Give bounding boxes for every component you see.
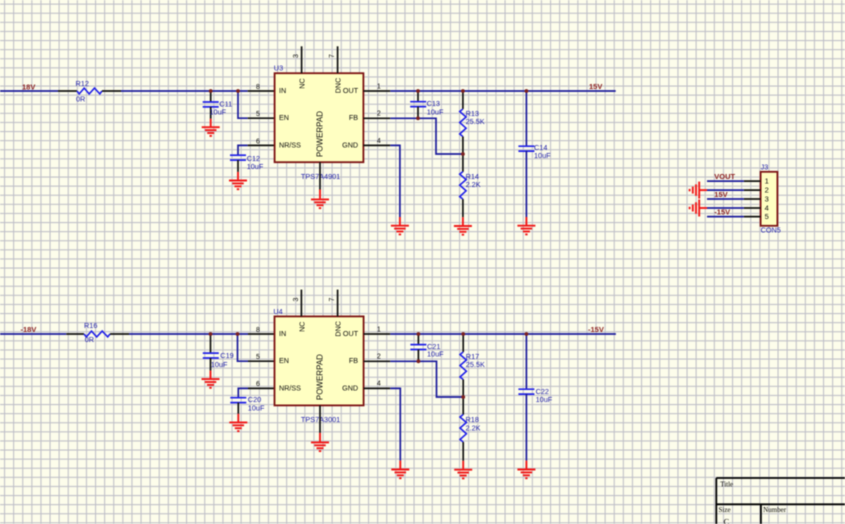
ground below C12	[229, 172, 247, 189]
svg-text:2: 2	[377, 354, 381, 361]
svg-text:1: 1	[377, 83, 381, 90]
svg-text:7: 7	[329, 297, 336, 301]
svg-text:CON5: CON5	[761, 226, 781, 235]
pin name DNC	[333, 78, 342, 94]
svg-text:IN: IN	[279, 329, 286, 338]
svg-text:GND: GND	[342, 140, 358, 149]
svg-text:R16: R16	[84, 321, 97, 330]
pin 1 OUT of U4	[364, 326, 391, 334]
pin 4 GND of U4	[364, 381, 391, 389]
svg-text:U4: U4	[273, 307, 282, 316]
svg-text:25.5K: 25.5K	[466, 360, 485, 369]
wire 15V to pin 3	[707, 198, 744, 200]
capacitor C22	[518, 387, 552, 404]
ground below C14	[517, 217, 535, 234]
svg-text:Title: Title	[720, 480, 733, 488]
resistor R13	[460, 91, 485, 154]
wire C14 to ground	[525, 151, 527, 217]
pin name OUT U4	[343, 329, 359, 338]
pin 5 EN of U4	[248, 354, 275, 361]
pin 2 FB of U4	[364, 354, 391, 362]
ground below R14	[454, 217, 472, 235]
svg-text:25.5K: 25.5K	[466, 117, 485, 126]
junction OUT at C21	[417, 332, 421, 336]
svg-text:C: C	[724, 516, 730, 524]
svg-text:6: 6	[256, 138, 260, 145]
pin name GND U4	[342, 383, 358, 392]
ground below C22	[517, 461, 535, 479]
wire GND pin to ground	[390, 145, 400, 217]
capacitor C20	[230, 395, 265, 414]
pin 8 IN of U4	[248, 327, 275, 334]
net label 18V	[22, 82, 35, 91]
net label 15V	[589, 82, 602, 91]
svg-text:10uF: 10uF	[534, 151, 551, 160]
resistor R12	[58, 79, 121, 104]
designator U4	[273, 307, 282, 316]
designator U3	[274, 64, 283, 73]
junction at EN tap	[236, 89, 240, 93]
svg-text:6: 6	[256, 381, 260, 388]
svg-text:1: 1	[377, 326, 381, 333]
pin 3 NC of U4	[293, 290, 302, 317]
svg-text:3: 3	[293, 297, 300, 301]
svg-text:10uF: 10uF	[247, 162, 264, 171]
pin name POWERPAD U4	[315, 354, 324, 400]
svg-text:U3: U3	[274, 64, 283, 73]
net label -15V at J3	[714, 208, 730, 217]
wire -15V to pin 5	[707, 216, 744, 218]
capacitor C13	[410, 91, 444, 118]
svg-text:7: 7	[329, 54, 336, 58]
wire R16 to U4 IN	[129, 333, 248, 335]
svg-text:10uF: 10uF	[427, 107, 444, 116]
wire GND pin to ground U4	[390, 388, 400, 460]
svg-text:C19: C19	[220, 351, 233, 360]
svg-text:NC: NC	[297, 78, 306, 88]
junction FB at C13	[416, 116, 420, 120]
wire 18V input rail	[0, 90, 58, 92]
svg-text:0R: 0R	[85, 335, 94, 344]
pin name IN U4	[279, 329, 286, 338]
pin name EN U4	[279, 356, 289, 365]
wire FB to divider	[390, 118, 463, 154]
svg-text:3: 3	[293, 54, 300, 58]
pin 7 DNC of U4	[329, 290, 338, 317]
capacitor C11	[203, 91, 233, 119]
wire NR/SS to C12	[238, 145, 248, 155]
svg-text:NR/SS: NR/SS	[279, 140, 301, 149]
pin 1 of J3	[744, 177, 769, 186]
svg-text:8: 8	[256, 84, 260, 91]
pin 4 GND of U3	[363, 138, 390, 146]
wire EN tap U4	[238, 334, 249, 361]
op-amp U3 body	[275, 73, 364, 162]
part value TPS7A4901	[301, 172, 340, 181]
ground below GND pin	[391, 217, 409, 234]
svg-text:10uF: 10uF	[210, 107, 227, 116]
svg-text:DNC: DNC	[333, 321, 342, 337]
svg-text:4: 4	[377, 138, 381, 145]
wire R12 to U3 IN	[121, 90, 248, 92]
title block label Size	[719, 506, 731, 514]
wire EN tap	[238, 91, 248, 118]
pin name FB	[349, 113, 358, 122]
junction at EN tap U4	[236, 332, 240, 336]
svg-text:GND: GND	[342, 383, 358, 392]
connector J3 body	[761, 172, 778, 226]
part value TPS7A3001	[301, 415, 340, 424]
op-amp U4 body	[275, 316, 364, 405]
junction OUT at C13	[416, 89, 420, 93]
svg-text:R12: R12	[76, 79, 89, 88]
junction R13 R14 node	[461, 152, 465, 156]
svg-text:J3: J3	[761, 162, 769, 171]
svg-text:NC: NC	[297, 322, 306, 332]
wire ground to pin 2	[707, 189, 744, 191]
junction R17 R18 node	[461, 395, 465, 399]
pin 9 POWERPAD of U4	[319, 405, 321, 433]
pin 4 of J3	[744, 203, 769, 212]
pin 6 NR/SS of U4	[248, 381, 275, 388]
svg-text:POWERPAD: POWERPAD	[315, 111, 324, 157]
net label 15V at J3	[714, 190, 727, 199]
svg-text:10uF: 10uF	[427, 350, 444, 359]
svg-text:Number: Number	[763, 506, 787, 514]
pin name EN	[279, 113, 289, 122]
svg-text:10uF: 10uF	[536, 395, 553, 404]
capacitor C21	[410, 334, 444, 361]
resistor R18	[460, 397, 481, 461]
svg-text:2: 2	[377, 111, 381, 118]
ground at pin 2	[690, 182, 707, 199]
svg-text:POWERPAD: POWERPAD	[315, 354, 324, 400]
wire OUT rail 15V	[390, 90, 615, 92]
svg-text:DNC: DNC	[333, 78, 342, 94]
title block size C	[724, 516, 730, 524]
title block label Title	[720, 480, 733, 488]
ground below U4	[311, 433, 329, 451]
capacitor C19	[203, 334, 234, 371]
wire FB to divider U4	[390, 361, 463, 397]
junction OUT at R17	[461, 332, 465, 336]
svg-text:FB: FB	[349, 113, 358, 122]
svg-text:3: 3	[765, 194, 769, 203]
capacitor C14	[518, 143, 551, 160]
pin name NC	[297, 78, 306, 88]
wire NR/SS to C20	[238, 388, 248, 397]
junction OUT at C22	[525, 332, 529, 336]
junction at C11	[209, 89, 213, 93]
ground at pin 4	[690, 200, 707, 217]
ground below C19	[202, 371, 220, 388]
pin 2 FB of U3	[363, 111, 390, 119]
ground below GND pin U4	[391, 461, 409, 479]
resistor R14	[460, 154, 481, 217]
pin 6 NR/SS of U3	[248, 138, 275, 145]
pin name FB U4	[349, 356, 358, 365]
svg-text:FB: FB	[349, 356, 358, 365]
svg-text:1: 1	[765, 177, 769, 186]
svg-text:OUT: OUT	[343, 86, 359, 95]
net label -15V	[588, 325, 604, 334]
capacitor C12	[230, 154, 264, 172]
svg-text:5: 5	[256, 111, 260, 118]
svg-text:-18V: -18V	[21, 325, 37, 334]
svg-text:OUT: OUT	[343, 329, 359, 338]
junction FB at C21	[417, 359, 421, 363]
wire C22 to ground	[525, 394, 527, 461]
svg-text:-15V: -15V	[714, 208, 730, 217]
ground below C20	[229, 414, 247, 431]
ground below U3	[311, 190, 329, 209]
pin name NR/SS U4	[279, 383, 301, 392]
wire VOUT to pin 1	[707, 180, 744, 182]
svg-text:Size: Size	[719, 506, 731, 514]
svg-text:18V: 18V	[22, 82, 35, 91]
junction OUT at R13	[461, 89, 465, 93]
wire OUT to C14	[525, 91, 527, 146]
svg-text:5: 5	[765, 212, 769, 221]
pin 2 of J3	[744, 186, 769, 195]
pin 8 IN of U3	[248, 84, 275, 91]
svg-text:10uF: 10uF	[211, 360, 228, 369]
wire -18V input rail	[0, 333, 66, 335]
net label -18V	[21, 325, 37, 334]
pin name POWERPAD	[315, 111, 324, 157]
designator J3	[761, 162, 769, 171]
pin name IN	[279, 86, 286, 95]
ground below C11	[202, 119, 220, 136]
pin 5 of J3	[744, 212, 769, 221]
svg-text:2.2K: 2.2K	[466, 424, 481, 433]
pin 9 POWERPAD of U3	[319, 162, 321, 189]
svg-text:NR/SS: NR/SS	[279, 383, 301, 392]
wire OUT to C22	[525, 334, 527, 389]
svg-text:15V: 15V	[714, 190, 727, 199]
svg-text:IN: IN	[279, 86, 286, 95]
svg-text:2: 2	[765, 186, 769, 195]
pin name OUT	[343, 86, 359, 95]
pin 7 DNC of U3	[329, 46, 338, 73]
pin name GND	[342, 140, 358, 149]
svg-text:5: 5	[256, 354, 260, 361]
title block label Number	[763, 506, 787, 514]
svg-text:4: 4	[377, 381, 381, 388]
pin 3 of J3	[744, 194, 769, 203]
svg-text:10uF: 10uF	[248, 404, 265, 413]
part value CON5	[761, 226, 781, 235]
svg-text:0R: 0R	[76, 94, 85, 103]
junction OUT at C14	[525, 89, 529, 93]
junction at C19	[209, 332, 213, 336]
net label VOUT	[714, 172, 735, 181]
wire ground to pin 4	[707, 207, 744, 209]
svg-text:2.2K: 2.2K	[466, 180, 481, 189]
resistor R16	[66, 321, 129, 344]
resistor R17	[460, 334, 485, 397]
svg-text:8: 8	[256, 327, 260, 334]
ground below R18	[454, 461, 472, 479]
svg-text:EN: EN	[279, 113, 289, 122]
pin name NC U4	[297, 322, 306, 332]
pin 3 NC of U3	[293, 46, 302, 73]
wire OUT rail -15V	[390, 333, 616, 335]
svg-text:15V: 15V	[589, 82, 602, 91]
svg-text:EN: EN	[279, 356, 289, 365]
title block frame	[716, 478, 845, 524]
pin 5 EN of U3	[248, 111, 275, 118]
svg-text:VOUT: VOUT	[714, 172, 735, 181]
pin name DNC U4	[333, 321, 342, 337]
pin name NR/SS	[279, 140, 301, 149]
pin 1 OUT of U3	[363, 83, 390, 91]
svg-text:-15V: -15V	[588, 325, 604, 334]
